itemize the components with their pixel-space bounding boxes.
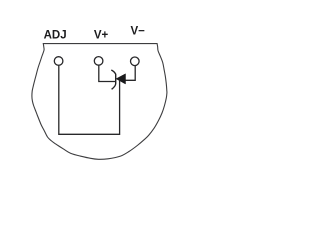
pin 1 circle ADJ <box>54 57 63 66</box>
zener diode D1 anode triangle <box>116 74 125 84</box>
svg-text:V−: V− <box>131 25 146 37</box>
pin 3 circle V- <box>131 57 140 66</box>
wire V- pin down and left to zener anode <box>126 66 136 80</box>
wire V+ pin down and right to zener cathode <box>99 66 116 82</box>
pin 2 circle V+ <box>94 57 103 66</box>
zener diode D1 cathode bar with bent tips <box>111 70 115 89</box>
svg-text:V+: V+ <box>94 30 109 42</box>
svg-text:ADJ: ADJ <box>44 29 67 41</box>
package outline TO-92 bottom view <box>32 44 167 160</box>
wire ADJ pin down, along bottom, up to diode tap <box>59 66 120 135</box>
